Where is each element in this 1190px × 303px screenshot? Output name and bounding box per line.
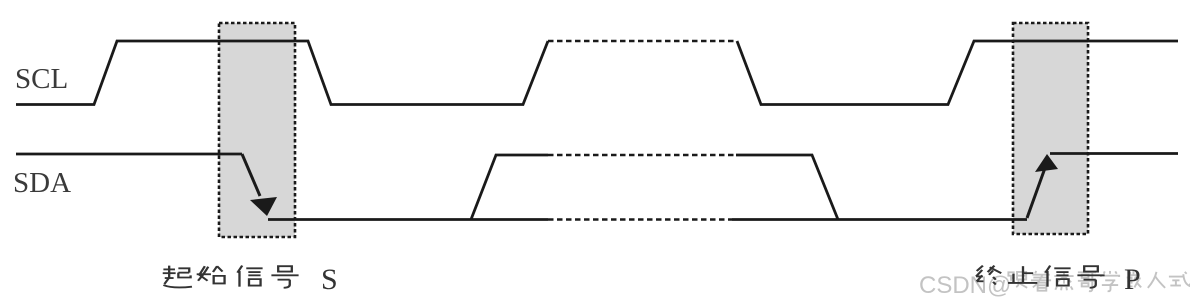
watermark CSDN@... light gray: [919, 270, 1190, 299]
svg-text:P: P: [1124, 263, 1141, 296]
svg-text:SCL: SCL: [15, 63, 68, 95]
svg-text:CSDN@: CSDN@: [919, 272, 1011, 299]
SDA middle pulse solid: [471, 155, 838, 220]
SDA low dashed: [548, 218, 732, 221]
start arrow (falling edge in start box): [242, 154, 260, 196]
SCL waveform dashed high segment: [548, 40, 737, 43]
label 终止信号 P (dark, overlapping watermark): [976, 263, 1141, 296]
svg-text:SDA: SDA: [13, 167, 71, 199]
start condition highlight box: [219, 23, 295, 237]
stop condition highlight box: [1013, 23, 1088, 234]
label 起始信号 S (dark): [163, 263, 338, 296]
stop arrow (rising edge in stop box): [1027, 168, 1045, 218]
svg-text:S: S: [321, 263, 338, 296]
SDA high after stop: [1050, 152, 1178, 155]
SDA low line solid (after start arrow): [268, 218, 1027, 221]
SCL waveform solid: [16, 41, 1178, 105]
SDA waveform solid: [16, 153, 242, 156]
SDA high dashed: [548, 154, 736, 157]
